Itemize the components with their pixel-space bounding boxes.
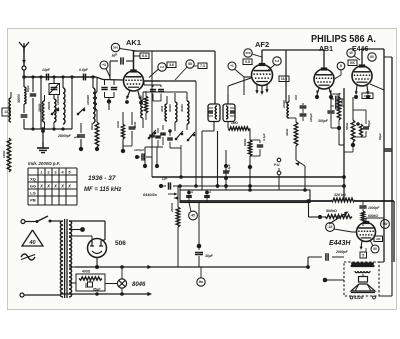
svg-text:100µF: 100µF: [309, 113, 313, 122]
resistor R10 320kΩ: [331, 193, 355, 202]
wire osc row y148: [170, 147, 181, 149]
antenna: [19, 42, 29, 66]
coil L1 30000: [17, 77, 26, 112]
svg-text:+1: +1: [230, 64, 234, 68]
resistor R13 600kΩ: [361, 211, 378, 226]
svg-text:X: X: [46, 184, 50, 189]
label AF2: [255, 40, 269, 49]
svg-text:60µF: 60µF: [378, 133, 382, 140]
wire AF2 grid: [244, 77, 252, 95]
wire 506 anode a: [69, 236, 92, 241]
wire x226 column: [223, 150, 231, 190]
speaker transformer primary: [351, 263, 374, 267]
svg-text:40: 40: [349, 51, 353, 55]
circled label 9W: [381, 220, 390, 229]
capacitor C11: [149, 128, 155, 147]
decoupling box: [180, 190, 310, 203]
wire lamp top joins bus267: [120, 265, 124, 272]
wire box left edge: [179, 186, 181, 201]
svg-text:4320: 4320: [354, 295, 364, 300]
junction dots input bottom: [31, 127, 64, 130]
svg-text:GG: GG: [30, 184, 36, 189]
svg-text:15.05: 15.05: [364, 94, 371, 98]
antenna terminal: [22, 66, 26, 70]
tube AB1: [314, 67, 334, 89]
circled label 60: [368, 53, 376, 61]
capacitor C25 2000pF: [308, 250, 349, 261]
wire bus y267: [75, 257, 310, 269]
AC sine symbol: [21, 254, 35, 260]
svg-text:10000: 10000: [282, 100, 286, 108]
junction dot rail x180: [178, 184, 182, 188]
wire rail x392: [384, 57, 392, 262]
svg-text:90: 90: [373, 247, 377, 251]
svg-text:5000: 5000: [133, 121, 137, 128]
junction dot bank: [121, 139, 125, 153]
junction dot bus lamp: [95, 292, 99, 296]
wire x152 long: [151, 51, 153, 177]
circled label 8: [337, 62, 345, 75]
mains terminal a: [21, 220, 25, 224]
wire rail x384: [383, 49, 385, 262]
capacitor C21 60µF: [378, 133, 391, 151]
wire HT tap dot: [69, 227, 85, 232]
svg-text:X: X: [60, 184, 64, 189]
wire column x72: [71, 77, 73, 129]
capacitor C2 80pF: [26, 77, 36, 129]
box label 15.6: [279, 76, 289, 82]
resistor left edge: [2, 138, 11, 172]
IF T1 leads: [202, 122, 214, 191]
wire R11 down: [177, 227, 179, 267]
capacitor C29: [153, 85, 164, 101]
tube AK1 cathode legs: [125, 91, 143, 105]
switch S3: [148, 130, 157, 139]
wire AB1 top: [323, 50, 325, 68]
svg-text:X: X: [67, 184, 71, 189]
coil L11: [282, 95, 289, 118]
capacitor C23 30µF: [195, 246, 214, 267]
svg-text:Ha: Ha: [199, 280, 203, 284]
svg-text:4.3: 4.3: [160, 65, 165, 69]
wire AK1 anode right: [144, 81, 161, 85]
svg-text:8: 8: [340, 64, 342, 68]
capacitor C20 + resistor bias: [353, 110, 371, 137]
svg-text:600kΩ: 600kΩ: [368, 214, 378, 218]
circled label +1: [228, 62, 244, 77]
svg-text:1MΩ: 1MΩ: [231, 121, 238, 125]
tube AF2: [252, 63, 273, 86]
box label 0.8: [243, 59, 252, 65]
svg-text:AK1: AK1: [126, 38, 141, 47]
wire plate drop x215: [214, 51, 216, 104]
IF T1 capacitor: [208, 108, 213, 116]
wire avc joins: [289, 95, 296, 118]
circled label Ha: [197, 267, 205, 286]
junction dot L5: [107, 99, 111, 110]
switch S2: [77, 108, 86, 116]
svg-text:+3: +3: [102, 63, 106, 67]
tube E446 legs: [354, 86, 370, 100]
wire input column: [40, 77, 42, 129]
svg-text:5: 5: [362, 253, 364, 257]
svg-text:300pF: 300pF: [318, 119, 329, 123]
capacitor C18 300pF: [318, 95, 335, 123]
wire E446 cathode diag: [370, 84, 384, 90]
junction dot osc a: [143, 147, 147, 168]
wire transformer to box: [69, 267, 76, 283]
svg-text:20000: 20000: [47, 101, 51, 111]
tube AF2 arrows: [255, 85, 268, 96]
mains switch: [25, 216, 61, 223]
text 1936-37: [88, 175, 116, 182]
label 4320: [350, 295, 375, 300]
capacitor C10 1000pF: [134, 148, 152, 161]
box label 7.3: [193, 63, 207, 69]
IF T2 bottom lead: [227, 122, 229, 129]
capacitor C13: [160, 125, 166, 145]
svg-text:320 kΩ: 320 kΩ: [334, 193, 346, 197]
power transformer secondary: [69, 221, 72, 297]
svg-text:MF = 115 kHz: MF = 115 kHz: [84, 187, 121, 193]
IF T2 coil: [226, 106, 228, 119]
capacitor C6 25000pF: [57, 123, 85, 147]
circled label 4+0: [149, 63, 166, 78]
coil L3: [56, 77, 65, 124]
svg-text:PB: PB: [30, 198, 36, 203]
table title: [28, 161, 60, 166]
junction dots antenna bus: [22, 75, 94, 78]
capacitor C5 6.6pF: [79, 68, 89, 80]
capacitor C7 4pF: [110, 52, 134, 65]
coil left edge: [9, 92, 11, 122]
wire PU column: [278, 175, 280, 190]
capacitor C19 3000pF: [331, 92, 344, 109]
svg-text:80pF: 80pF: [26, 85, 30, 92]
circled label 90: [370, 240, 379, 253]
junction dot rail x305: [224, 184, 307, 192]
wire bank to box: [123, 139, 132, 146]
PU terminal b: [277, 168, 281, 175]
wire AK1 anode bus: [144, 80, 197, 82]
svg-text:1000pF: 1000pF: [331, 92, 341, 96]
svg-text:50kΩ: 50kΩ: [345, 122, 349, 130]
IF T2 top lead: [228, 78, 251, 104]
box label 6.8: [134, 53, 150, 59]
speaker field coil: [352, 263, 374, 267]
wire AB1 cathode right: [335, 75, 342, 79]
box cap pair a: [186, 189, 194, 203]
wire E443H plate: [366, 218, 384, 223]
capacitor C9 5000pF: [129, 112, 137, 139]
svg-text:1000pF: 1000pF: [134, 148, 145, 152]
svg-text:14pF: 14pF: [42, 68, 51, 72]
speaker transformer secondary: [355, 271, 370, 273]
resistor R14 400Ω box: [76, 270, 105, 292]
circled label +3: [100, 61, 110, 77]
wire rail y186: [180, 185, 344, 187]
box label left edge: [2, 108, 10, 116]
IF transformer T2 can: [223, 104, 235, 122]
wire osc top: [143, 91, 187, 93]
tube AK1: [124, 69, 144, 91]
box label 15.05: [362, 93, 373, 99]
junction dot ground: [41, 129, 45, 133]
svg-text:100000: 100000: [56, 95, 60, 105]
svg-text:X: X: [53, 184, 57, 189]
capacitor C28: [144, 85, 161, 101]
wire rails into speaker: [379, 262, 392, 296]
label AB1: [319, 46, 333, 53]
triangle 40: [22, 230, 43, 246]
resistor R8 1MΩ: [337, 93, 344, 128]
svg-text:50kΩ: 50kΩ: [90, 122, 94, 130]
svg-text:40: 40: [28, 240, 35, 246]
svg-text:E443H: E443H: [329, 240, 351, 247]
capacitor C12: [155, 128, 161, 147]
wire diode load down: [339, 134, 344, 145]
capacitor C26 65µF: [86, 279, 101, 292]
svg-text:P.U.: P.U.: [274, 163, 281, 167]
resistor R5 1MΩ: [228, 121, 250, 140]
svg-text:KK: KK: [350, 61, 355, 65]
wire x217 to rail: [216, 131, 220, 188]
wire rail x344: [342, 88, 346, 201]
svg-text:100Ω: 100Ω: [2, 150, 6, 158]
junction dot below AF2: [248, 156, 252, 169]
junction dot osc b: [155, 147, 159, 168]
capacitor C24 1000pF: [359, 201, 380, 211]
tube AB1 legs: [315, 88, 333, 99]
switch S5: [187, 132, 196, 141]
wire R9 to rail: [344, 145, 353, 152]
svg-text:45: 45: [191, 214, 195, 218]
svg-text:30kΩ: 30kΩ: [285, 128, 289, 136]
svg-text:30000: 30000: [17, 94, 21, 103]
circled label -18: [326, 223, 352, 232]
text 6440/2a: [143, 192, 178, 197]
svg-text:LG: LG: [30, 191, 36, 196]
resistor R3: [116, 112, 125, 139]
wire AF2 plate: [262, 50, 324, 65]
label E443H: [329, 240, 351, 247]
svg-text:200: 200: [113, 46, 118, 50]
svg-text:40000: 40000: [180, 104, 184, 113]
wire osc row y147: [145, 146, 163, 148]
speaker cone: [351, 284, 375, 293]
wire AF2 screen right: [285, 50, 287, 103]
resistor R7 30kΩ: [285, 118, 298, 146]
coil L2: [47, 99, 56, 129]
wire 506 anode b: [101, 239, 105, 241]
svg-text:60: 60: [370, 55, 374, 59]
capacitor C27 osc: [167, 131, 173, 148]
junction dot AB1 load: [331, 121, 341, 134]
resistor R11 2500Ω: [170, 186, 180, 227]
circled label 6+0: [268, 57, 281, 70]
svg-text:3.6: 3.6: [169, 63, 174, 67]
coil L9: [168, 93, 177, 131]
label 506: [115, 240, 126, 247]
wire antenna to bus: [23, 70, 25, 77]
resistor R4 1000: [139, 91, 148, 120]
wire rail y201: [180, 201, 394, 262]
switch S1: [51, 108, 60, 116]
coil L8: [160, 96, 167, 121]
svg-text:30µF: 30µF: [205, 254, 214, 258]
wire HT top: [69, 221, 105, 240]
ground: [37, 129, 49, 153]
circled label 40: [347, 49, 360, 60]
junction dot R9 bottom: [351, 142, 355, 147]
AVC arrow: [295, 146, 305, 190]
tube E443H: [357, 221, 376, 242]
svg-text:6.8: 6.8: [142, 54, 147, 58]
tube 506 rectifier: [88, 239, 107, 263]
svg-text:100Ω: 100Ω: [116, 120, 120, 128]
svg-text:13: 13: [4, 110, 8, 114]
junction dot below C6: [79, 147, 83, 151]
wire antenna bus: [24, 76, 96, 78]
capacitor C15 0.1µF: [250, 133, 266, 156]
svg-text:0.8: 0.8: [245, 60, 250, 64]
svg-text:PHILIPS 586 A.: PHILIPS 586 A.: [311, 34, 376, 45]
svg-text:100000: 100000: [86, 95, 90, 105]
circled label 200 AF2: [244, 49, 262, 57]
svg-text:9W: 9W: [383, 222, 388, 226]
coil L4: [86, 77, 95, 123]
svg-text:20000: 20000: [38, 103, 42, 113]
svg-text:1000pF: 1000pF: [368, 206, 380, 210]
wire 506 cathode to bus: [95, 262, 99, 269]
wire x250 to box: [248, 169, 252, 192]
svg-text:0.1µF: 0.1µF: [227, 164, 231, 172]
circled label 200 at AK1: [111, 43, 136, 51]
svg-text:65µF: 65µF: [93, 288, 101, 292]
label E446: [352, 46, 368, 53]
speaker voice coil box: [359, 274, 368, 282]
svg-text:2000pF: 2000pF: [335, 250, 349, 254]
resistor R9 50kΩ: [345, 97, 355, 142]
svg-text:AF2: AF2: [255, 40, 269, 49]
resistor R6 600Ω: [243, 138, 256, 156]
tube E446: [352, 64, 372, 86]
capacitor C16: [300, 103, 307, 113]
speaker dashed box: [344, 262, 379, 296]
junction dot osc c: [168, 129, 171, 132]
wire AK1 top cap: [133, 51, 135, 70]
text MF 115kHz: [84, 187, 121, 193]
speaker input dot: [323, 278, 344, 283]
svg-text:8046: 8046: [132, 282, 146, 288]
svg-text:6.3: 6.3: [275, 59, 280, 63]
capacitor C22 1µF: [159, 176, 180, 190]
circled label 68: [175, 60, 194, 80]
box label KK: [348, 60, 357, 66]
svg-text:XQ: XQ: [30, 177, 36, 182]
svg-text:0.1: 0.1: [190, 189, 194, 193]
svg-text:7.3: 7.3: [200, 64, 205, 68]
svg-text:506: 506: [115, 240, 126, 247]
wire rail y177: [152, 176, 344, 178]
wire input bottom: [24, 128, 72, 130]
svg-text:200: 200: [245, 51, 250, 55]
coil L6 osc: [141, 92, 143, 128]
trimmer capacitor C4: [49, 77, 60, 99]
svg-text:6440/2a: 6440/2a: [143, 193, 157, 197]
capacitor C8: [101, 80, 117, 100]
wire AK1 grid: [96, 61, 124, 80]
coil L5: [95, 77, 97, 110]
box label 3.6: [167, 62, 176, 68]
svg-text:2500Ω: 2500Ω: [170, 202, 174, 213]
circled label 45: [189, 203, 198, 220]
coil L10: [180, 92, 189, 130]
power transformer core: [65, 219, 67, 298]
svg-text:400Ω: 400Ω: [81, 270, 91, 274]
svg-text:0.1µF: 0.1µF: [262, 133, 266, 141]
svg-text:Indr. 2000Ω p.F.: Indr. 2000Ω p.F.: [28, 161, 60, 166]
svg-text:-18: -18: [328, 225, 333, 229]
coil switch table: [28, 168, 77, 205]
svg-text:25000pF: 25000pF: [57, 134, 72, 138]
IF T2 capacitor: [230, 108, 235, 116]
box label AR: [374, 236, 383, 242]
label 8046: [132, 282, 146, 288]
svg-text:1936 - 37: 1936 - 37: [88, 175, 116, 182]
capacitor C17: [300, 113, 313, 122]
resistor R2 50kΩ: [90, 110, 99, 151]
junction dot cathode mid: [197, 203, 202, 249]
capacitor C1: [21, 112, 28, 129]
wire bus y294: [61, 292, 152, 296]
mains terminal b: [20, 293, 61, 297]
label AK1: [126, 38, 141, 47]
switch S4: [175, 131, 184, 140]
svg-text:68: 68: [188, 62, 192, 66]
wire osc verticals: [181, 81, 198, 188]
svg-text:0.1: 0.1: [208, 189, 212, 193]
svg-text:60µF: 60µF: [367, 120, 371, 127]
wire x181 down: [179, 160, 183, 179]
resistor R12 500kΩ pot: [307, 199, 352, 224]
title PHILIPS 586 A.: [311, 34, 376, 45]
svg-text:40000: 40000: [168, 104, 172, 113]
svg-text:X: X: [39, 184, 43, 189]
capacitor C3 14pF: [42, 68, 51, 80]
svg-text:4000: 4000: [160, 105, 164, 113]
wire AK1 plate top: [134, 50, 216, 52]
svg-text:6.6pF: 6.6pF: [79, 68, 89, 72]
coil L2b: [38, 95, 45, 129]
coil L7 osc: [151, 107, 153, 126]
svg-text:500kΩ: 500kΩ: [326, 209, 337, 213]
wire E446 top: [362, 49, 384, 66]
IF T1 coil: [215, 106, 217, 119]
lamp: [105, 272, 127, 294]
svg-text:600Ω: 600Ω: [243, 138, 247, 146]
power transformer primary: [60, 221, 63, 297]
wire E443H grid: [352, 231, 357, 233]
IF transformer T1 can: [208, 104, 220, 122]
box label 5: [360, 248, 367, 258]
PU terminal a: [274, 158, 281, 167]
box cap pair b: [204, 189, 212, 203]
tube E443H legs: [360, 241, 363, 251]
